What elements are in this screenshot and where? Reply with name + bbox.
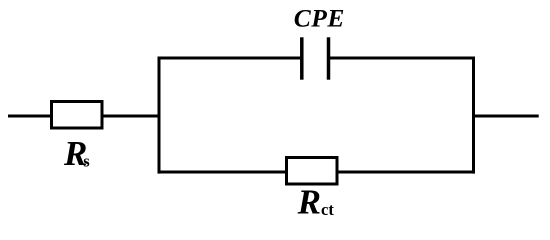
wire: left lead <box>8 115 52 118</box>
svg-text:R: R <box>297 183 321 222</box>
wire: top rail left segment <box>158 57 301 60</box>
resistor R_s <box>52 102 103 129</box>
wire: top rail right segment <box>330 57 476 60</box>
capacitor CPE (constant phase element plates) <box>302 37 329 79</box>
node A: left junction vertical <box>158 57 161 174</box>
wire: right lead <box>472 115 539 118</box>
node B: right junction vertical <box>472 57 475 174</box>
svg-text:ct: ct <box>321 200 334 219</box>
wire: bottom rail left segment <box>158 171 288 174</box>
wire: R_s to node A <box>102 115 161 118</box>
wire: bottom rail right segment <box>337 171 476 174</box>
svg-text:s: s <box>83 152 90 171</box>
label R_ct <box>297 183 335 222</box>
label R_s <box>63 134 90 173</box>
svg-text:CPE: CPE <box>294 4 345 33</box>
resistor R_ct <box>287 158 338 185</box>
